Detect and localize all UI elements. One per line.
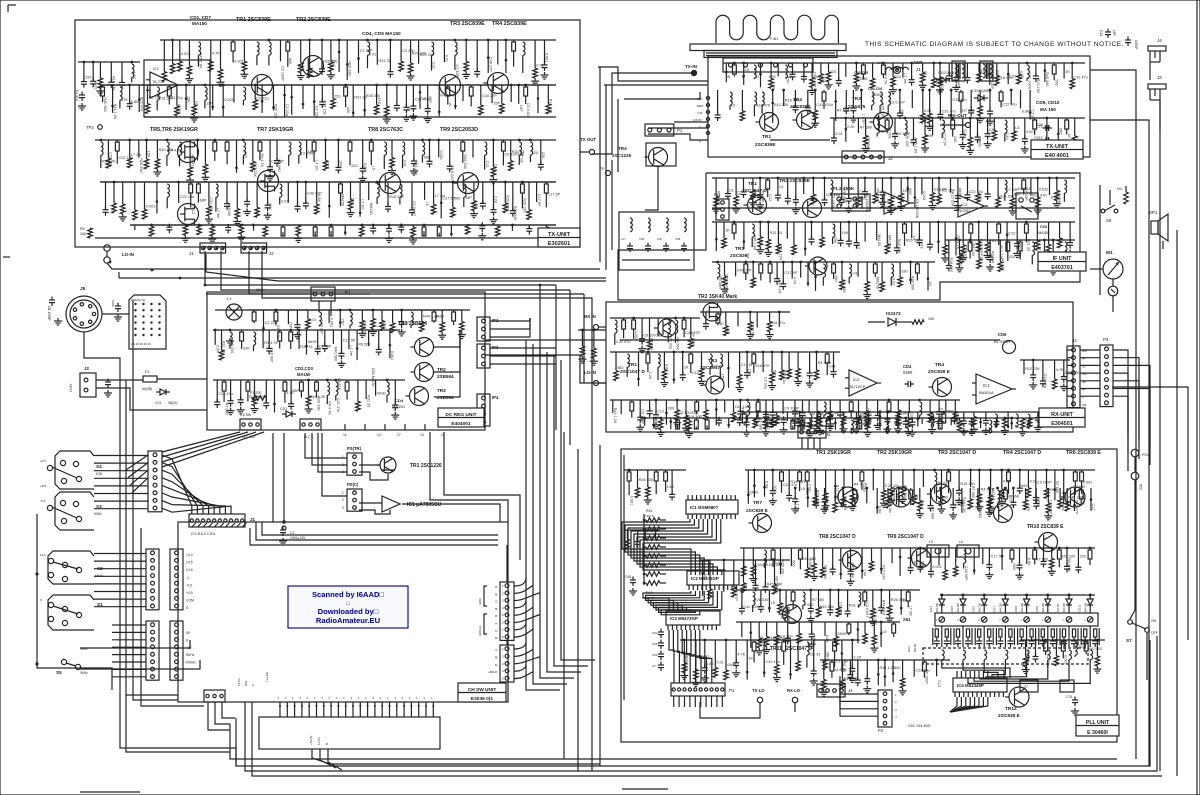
svg-text:3: 3 [895, 708, 897, 712]
svg-text:0A90: 0A90 [958, 188, 962, 197]
svg-text:0.022: 0.022 [1036, 497, 1040, 507]
svg-text:CD5 MA150: CD5 MA150 [371, 368, 375, 387]
components pll rowB [740, 547, 1000, 549]
svg-text:0.022: 0.022 [363, 163, 367, 173]
connector P3 strip [1100, 345, 1113, 407]
svg-text:6.8K: 6.8K [877, 506, 881, 514]
svg-text:0.01: 0.01 [445, 55, 449, 62]
svg-text:6.8K: 6.8K [1027, 558, 1031, 566]
svg-text:2: 2 [502, 654, 504, 658]
svg-text:R40 560: R40 560 [911, 276, 915, 290]
svg-text:4.7K: 4.7K [1026, 504, 1030, 512]
svg-text:P3: P3 [1103, 337, 1109, 342]
wire left drop to bus [120, 690, 236, 766]
wires ip3 right [490, 347, 556, 349]
svg-text:SPL: SPL [697, 97, 703, 101]
wires below rect [312, 749, 600, 764]
svg-text:2.2K: 2.2K [326, 162, 330, 170]
components if row1 [712, 177, 1075, 179]
svg-text:68P: 68P [825, 652, 829, 659]
svg-text:E403701: E403701 [1051, 265, 1073, 271]
svg-text:C12: C12 [894, 75, 901, 79]
svg-text:C12: C12 [963, 129, 967, 136]
svg-text:560: 560 [920, 500, 924, 506]
svg-text:0.01: 0.01 [850, 272, 857, 276]
components pll lower2 [820, 659, 950, 661]
svg-text:R7 680: R7 680 [971, 486, 975, 498]
svg-text:R20 100: R20 100 [823, 565, 827, 579]
connector J2 left [80, 373, 96, 397]
connector IP3 [477, 344, 490, 368]
svg-text:c: c [936, 618, 938, 622]
svg-text:R44 1.2K: R44 1.2K [613, 408, 617, 424]
svg-text:C11: C11 [1099, 30, 1103, 36]
svg-text:15P: 15P [147, 151, 151, 158]
svg-text:C:: C: [495, 600, 498, 604]
wire tx bundle 3 [624, 92, 700, 99]
svg-text:4.7K: 4.7K [1038, 243, 1042, 251]
svg-text:10K: 10K [773, 485, 777, 492]
svg-text:R31 33: R31 33 [379, 59, 391, 63]
svg-text:5.8 SW: 5.8 SW [240, 413, 252, 417]
svg-text:15P: 15P [747, 369, 751, 376]
svg-text:TR1 2SC1226: TR1 2SC1226 [410, 463, 442, 469]
fan wires A to J1 [162, 455, 192, 514]
svg-text:J3: J3 [1157, 75, 1162, 80]
op-amp IC2 TA7061 [958, 195, 984, 217]
resistor R1 200 [252, 396, 266, 401]
switch S4 loop [55, 451, 94, 489]
svg-text:4.7K: 4.7K [792, 277, 796, 285]
svg-text:R31 33: R31 33 [770, 231, 782, 235]
svg-text:TR12: TR12 [1005, 706, 1017, 712]
wire left long 4 [141, 528, 204, 706]
svg-text:MX IN: MX IN [584, 314, 596, 319]
svg-text:OB: OB [1082, 403, 1086, 407]
svg-text:TR3 2SC1047 D: TR3 2SC1047 D [938, 450, 976, 456]
svg-text:0A90: 0A90 [978, 138, 982, 147]
svg-text:TA712CP: TA712CP [849, 385, 866, 389]
wire drop c [569, 290, 571, 445]
svg-text:L1: L1 [227, 296, 232, 301]
svg-text:TX OUT: TX OUT [580, 137, 596, 142]
svg-text:C2 22u: C2 22u [285, 104, 289, 116]
svg-text:040Hz: 040Hz [186, 661, 196, 665]
svg-text:PLL UNIT: PLL UNIT [1086, 720, 1110, 726]
heat sink FIN fins [716, 15, 838, 43]
wire top rail row1 [160, 39, 556, 41]
connector J5 DIN [66, 296, 102, 332]
wire if signal [712, 207, 1075, 209]
svg-text:C44: C44 [862, 569, 866, 576]
svg-text:0.022: 0.022 [804, 603, 814, 607]
transistor TR1 pll [838, 487, 858, 507]
capacitor left2 [115, 305, 121, 307]
wire tx bundle 1 [598, 67, 708, 81]
svg-text:4.7K: 4.7K [979, 254, 983, 262]
components pll lower [680, 639, 860, 641]
svg-text:R4 4.7K: R4 4.7K [264, 341, 278, 345]
wire ground rail row2 [130, 224, 556, 226]
svg-text:L7 2m: L7 2m [360, 199, 364, 210]
svg-text:+l: +l [291, 696, 295, 699]
transistor TR2 pll [891, 487, 911, 507]
svg-text:C9 100P: C9 100P [640, 409, 644, 424]
svg-text:4: 4 [895, 715, 897, 719]
svg-text:330: 330 [346, 107, 350, 113]
svg-text:CD4: CD4 [929, 606, 933, 612]
svg-text:MA150: MA150 [977, 602, 981, 612]
svg-text:J5: J5 [80, 286, 86, 292]
svg-text:13.8V: 13.8V [69, 383, 73, 392]
heat sink base bar [690, 44, 846, 51]
svg-text:C18 30P: C18 30P [320, 320, 324, 335]
svg-text:TR2: TR2 [437, 367, 446, 372]
svg-text:L7 2m: L7 2m [314, 160, 318, 171]
svg-text:TR1 2SC839E: TR1 2SC839E [236, 17, 271, 23]
transistor TR8 [380, 173, 401, 194]
svg-text:220: 220 [1009, 255, 1015, 259]
svg-text:L5: L5 [771, 601, 775, 605]
wire dc top [215, 309, 460, 311]
meter M1 [1103, 259, 1123, 279]
svg-text:+l: +l [415, 696, 419, 699]
svg-text:C31 47u: C31 47u [1043, 374, 1047, 388]
wire long A [250, 528, 498, 545]
wire dc bottom ticks [344, 424, 346, 430]
svg-text:C12: C12 [432, 62, 436, 69]
svg-text:TR10 2SC839 E: TR10 2SC839 E [1027, 524, 1064, 530]
svg-text:C12: C12 [821, 76, 825, 83]
svg-text:E:: E: [495, 663, 498, 667]
svg-text:C7: C7 [652, 664, 656, 668]
svg-text:A:: A: [495, 622, 498, 626]
connector J1 rx [798, 426, 826, 438]
components pll rowD [1020, 639, 1105, 641]
svg-text:CD9: CD9 [1035, 606, 1039, 612]
svg-text:3: 3 [502, 599, 504, 603]
svg-text:MA150: MA150 [1020, 602, 1024, 612]
discriminator CK1 [1016, 193, 1038, 219]
svg-text:C12: C12 [485, 161, 489, 168]
wire bus1 [107, 263, 600, 269]
connector J1 [200, 243, 226, 253]
svg-text:2SC839 E: 2SC839 E [746, 508, 769, 514]
trimmer cap cells [941, 626, 943, 647]
wire tx bundle 2 [604, 84, 708, 86]
svg-text:c: c [1084, 618, 1086, 622]
svg-text:47K: 47K [331, 59, 335, 66]
svg-text:330: 330 [668, 407, 674, 411]
svg-text:C22 10u: C22 10u [109, 152, 113, 166]
svg-text:2SC839 E: 2SC839 E [998, 713, 1021, 719]
components rx row3 [740, 411, 1065, 413]
scan artifact bottom smudge [622, 788, 668, 790]
svg-text:R26 330: R26 330 [463, 154, 467, 168]
svg-text:220: 220 [999, 496, 1005, 500]
svg-text:MI30(: MI30( [872, 93, 882, 97]
svg-text:E40 4001: E40 4001 [1045, 153, 1069, 159]
svg-text:J1: J1 [826, 432, 831, 437]
svg-text:C9 100P: C9 100P [281, 66, 285, 81]
svg-text:22K: 22K [1139, 483, 1143, 490]
svg-text:R9 56K: R9 56K [358, 342, 371, 346]
svg-text:5: 5 [502, 677, 504, 681]
svg-text:6.8K: 6.8K [921, 561, 925, 569]
svg-text:L5: L5 [372, 166, 376, 170]
connector P1 dc [311, 287, 335, 301]
svg-text:L1: L1 [878, 61, 882, 65]
svg-text:B:: B: [495, 607, 498, 611]
transistor TR2 2SB564 [415, 363, 434, 382]
TP2 terminal [98, 125, 103, 130]
transistor TR3 2SA675 [874, 113, 893, 132]
svg-text:2SC839[: 2SC839[ [730, 253, 749, 259]
svg-text:c: c [1021, 618, 1023, 622]
svg-text:J1: J1 [916, 67, 921, 72]
svg-text:1K: 1K [684, 366, 689, 370]
scan artifact right edge [1196, 0, 1198, 795]
svg-text:+l: +l [298, 696, 302, 699]
svg-text:C9 100P: C9 100P [784, 407, 799, 411]
capacitor C45 [630, 579, 636, 581]
svg-text:+l: +l [407, 696, 411, 699]
svg-text:IC1 μA7805CU: IC1 μA7805CU [407, 502, 442, 508]
svg-text:1: 1 [342, 491, 344, 495]
svg-text:L7 2m: L7 2m [888, 502, 892, 513]
svg-text:220: 220 [85, 75, 91, 79]
connector P2 pll [878, 690, 892, 727]
svg-text:CD1, CD7: CD1, CD7 [190, 15, 211, 20]
svg-text:CD8: CD8 [1014, 606, 1018, 612]
components pll rowC [736, 589, 920, 591]
pin labels txr left [706, 96, 709, 99]
switch S2 loop [48, 551, 94, 584]
IC4 M53345P box [953, 678, 1007, 692]
svg-text:TR4 2SC839E: TR4 2SC839E [492, 21, 527, 27]
wire bottom bus right 3 [578, 636, 1157, 771]
svg-text:TP: TP [600, 167, 605, 171]
svg-text:L7 2m: L7 2m [520, 153, 524, 164]
svg-text:J1: J1 [848, 688, 853, 693]
svg-text:C22 10u: C22 10u [180, 195, 194, 199]
svg-text:1K: 1K [1067, 133, 1071, 138]
wire drop a [539, 285, 541, 360]
svg-text:IC2: IC2 [961, 202, 968, 207]
svg-text:E 30460I: E 30460I [1087, 730, 1108, 736]
svg-text:R7 680: R7 680 [842, 280, 846, 292]
svg-text:R15 150: R15 150 [999, 194, 1013, 198]
svg-text:6.8K: 6.8K [317, 194, 321, 202]
svg-text:TR7 2SK19GR: TR7 2SK19GR [257, 127, 293, 133]
svg-text:3B(24): 3B(24) [168, 401, 178, 405]
components row2b [130, 224, 556, 226]
svg-text:MA150: MA150 [991, 488, 995, 500]
svg-text:L7 2m: L7 2m [795, 501, 799, 512]
wire long C [262, 522, 498, 535]
svg-text:H1: H1 [1117, 186, 1123, 191]
components input left [78, 61, 140, 63]
svg-text:IC2: IC2 [853, 377, 860, 382]
svg-text:R18 47K: R18 47K [949, 257, 953, 272]
svg-text:560: 560 [288, 58, 292, 64]
svg-text:Downloaded by□: Downloaded by□ [318, 607, 379, 616]
svg-text:C76: C76 [1066, 695, 1072, 699]
svg-text:PS(TR): PS(TR) [347, 446, 362, 451]
IC3 M5473GP box [666, 611, 720, 625]
svg-text:R9 56K: R9 56K [676, 337, 680, 350]
svg-text:+l: +l [378, 696, 382, 699]
resistor H1 [1124, 192, 1129, 204]
svg-text:TX-UNIT: TX-UNIT [548, 232, 571, 238]
svg-text:+l: +l [334, 696, 338, 699]
svg-text:220: 220 [532, 151, 538, 155]
svg-text:E302601: E302601 [548, 241, 570, 247]
svg-text:15P: 15P [786, 77, 790, 84]
svg-text:L6: L6 [959, 540, 963, 544]
wire left long 1 [119, 430, 121, 690]
wire s7 [1130, 500, 1135, 619]
svg-text:L7 2m: L7 2m [858, 190, 862, 201]
switch S3 loop [55, 492, 94, 530]
svg-text:MA150: MA150 [888, 235, 892, 247]
wire matrix top bus [940, 594, 1095, 596]
svg-text:C: C [251, 683, 255, 686]
transistor TR8 [843, 551, 862, 570]
box right ic4 [1060, 680, 1074, 692]
svg-text:220: 220 [351, 164, 357, 168]
wire drop b [555, 285, 557, 430]
svg-text:47K: 47K [121, 98, 128, 102]
svg-text:14.4: 14.4 [186, 553, 193, 557]
wires chsw right b [514, 642, 526, 649]
svg-text:R45 1.8K: R45 1.8K [199, 53, 203, 69]
svg-text:Y.W: Y.W [697, 111, 702, 115]
svg-text:CD2,CD3: CD2,CD3 [295, 366, 314, 371]
svg-text:S5: S5 [56, 670, 62, 675]
svg-text:TR3 2SC839E: TR3 2SC839E [450, 21, 485, 27]
svg-text:A:: A: [495, 648, 498, 652]
wire ic1 out [402, 504, 500, 522]
wire pll bottom [700, 702, 760, 718]
svg-text:RX-UNIT: RX-UNIT [1051, 412, 1074, 418]
svg-text:C17 5P: C17 5P [785, 271, 798, 275]
svg-text:C3 0.047: C3 0.047 [412, 201, 416, 216]
svg-text:0.001: 0.001 [234, 60, 244, 64]
antenna node ANT J1 [894, 67, 901, 74]
wire bottom bus 3 [245, 449, 578, 771]
transistor TR10 2SC839E [1039, 533, 1058, 552]
svg-text:0.001: 0.001 [439, 151, 443, 161]
svg-text:R9 56K: R9 56K [775, 576, 779, 589]
wire matrix staircase [942, 664, 1010, 678]
label box TX-UNIT E404001 [1031, 140, 1083, 159]
switch S1 [48, 602, 53, 607]
svg-text:PS(C): PS(C) [347, 482, 359, 487]
connector IP2 [477, 317, 490, 341]
svg-text:R7 680: R7 680 [842, 190, 846, 202]
svg-text:1000P: 1000P [1134, 40, 1138, 49]
svg-text:330: 330 [953, 136, 957, 142]
svg-text:CD4: CD4 [395, 398, 404, 403]
svg-text:C40 27P: C40 27P [734, 586, 738, 601]
svg-text:R20 100: R20 100 [274, 104, 278, 118]
wire thick vertical pair [272, 433, 274, 522]
RX unit block border [606, 302, 1073, 432]
capacitor column C5A-C7 [658, 631, 664, 633]
wire ground rail row1 [144, 116, 556, 118]
label box PLL UNIT [1076, 715, 1119, 736]
svg-text:D:: D: [495, 585, 498, 589]
coils in dashed box [942, 650, 944, 660]
svg-text:2.2K: 2.2K [854, 655, 862, 659]
svg-text:J1: J1 [189, 251, 194, 256]
wires pll ic3 down [669, 630, 674, 683]
svg-text:IF UNIT: IF UNIT [1053, 256, 1073, 262]
svg-text:E404001: E404001 [451, 421, 471, 427]
svg-text:4.7K: 4.7K [132, 71, 136, 79]
svg-text:L5: L5 [736, 191, 740, 195]
svg-text:RadioAmateur.EU: RadioAmateur.EU [316, 616, 381, 625]
wires strips c left [112, 624, 146, 626]
svg-text:220: 220 [541, 152, 545, 158]
svg-text:3: 3 [502, 662, 504, 666]
wire ra1 bus [623, 455, 625, 700]
svg-text:15P: 15P [721, 374, 725, 381]
svg-text:C50: C50 [652, 653, 658, 657]
svg-text:MA150: MA150 [392, 404, 405, 409]
capacitor C09 [1045, 125, 1047, 131]
svg-text:C09: C09 [1036, 123, 1043, 127]
svg-text:C6 10V33B: C6 10V33B [725, 274, 729, 294]
svg-text:C12: C12 [1091, 504, 1095, 511]
svg-text:R44 1.2K: R44 1.2K [113, 104, 117, 120]
op-amp IC1 TA7120P [849, 370, 877, 396]
svg-text:R12 22K: R12 22K [774, 103, 789, 107]
svg-text:J2: J2 [84, 366, 89, 371]
switch S4 [47, 465, 52, 470]
svg-text:560: 560 [772, 370, 776, 376]
svg-text:1: 1 [502, 647, 504, 651]
svg-text:R40 560: R40 560 [1087, 647, 1101, 651]
coil L5 L6 [927, 545, 949, 557]
connector J1 chsw [189, 514, 245, 527]
wires p2 left [840, 694, 878, 697]
wires rx to J2 [1067, 349, 1073, 351]
svg-text:6.8K: 6.8K [665, 364, 669, 372]
scan credit box [288, 586, 408, 628]
svg-text:+17: +17 [186, 646, 192, 650]
svg-text:15P: 15P [465, 196, 472, 200]
svg-text:560: 560 [834, 275, 838, 281]
wire bus3 [206, 254, 606, 281]
svg-text:C31 47u: C31 47u [336, 398, 340, 412]
svg-text:TR3: TR3 [437, 388, 446, 393]
op-amp IC1 BA403 [884, 192, 910, 214]
svg-text:c: c [957, 618, 959, 622]
svg-text:TR8 2SC763C: TR8 2SC763C [368, 127, 403, 133]
svg-text:L7 2m: L7 2m [908, 606, 912, 617]
svg-text:R4 4.7K: R4 4.7K [328, 401, 332, 415]
svg-text:2: 2 [502, 591, 504, 595]
components pll mid col [700, 559, 790, 561]
svg-text:D G B A D C B A: D G B A D C B A [191, 532, 216, 536]
op-amp IC1 TA-7120 [150, 72, 178, 98]
svg-text:10K: 10K [339, 160, 343, 167]
components rx row4 [1020, 359, 1070, 361]
bracket 100KHz [484, 586, 487, 606]
trimmer PV2 [1131, 449, 1139, 457]
